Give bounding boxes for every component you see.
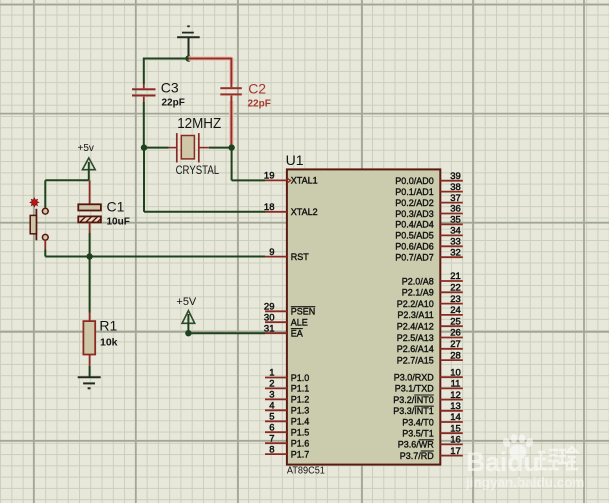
- svg-text:35: 35: [450, 215, 461, 226]
- svg-text:P3.1/TXD: P3.1/TXD: [395, 384, 435, 394]
- pin 10 P3.0/RXD stub: [394, 367, 463, 382]
- pin 29 PSEN stub: [264, 302, 315, 317]
- svg-text:8: 8: [269, 444, 274, 455]
- node: RST rail junction: [86, 253, 92, 259]
- svg-text:12: 12: [450, 390, 461, 401]
- pin 26 P2.5/A13 stub: [397, 328, 463, 343]
- pin 6 P1.5 stub: [265, 422, 309, 437]
- wire: C1 bottom to RST rail: [89, 233, 91, 257]
- capacitor C3: [132, 80, 185, 109]
- svg-text:3: 3: [269, 390, 274, 401]
- pin 8 P1.7 stub: [265, 444, 309, 459]
- watermark (Baidu): [465, 434, 585, 490]
- svg-text:P3.4/T0: P3.4/T0: [402, 417, 434, 427]
- svg-text:ALE: ALE: [291, 318, 308, 328]
- pin 4 P1.3 stub: [265, 401, 309, 416]
- pin 2 P1.1 stub: [265, 379, 309, 394]
- svg-text:1: 1: [269, 368, 274, 379]
- svg-text:24: 24: [450, 305, 461, 316]
- svg-text:P3.6/WR: P3.6/WR: [398, 440, 435, 450]
- svg-text:25: 25: [450, 316, 461, 327]
- pin 19 XTAL1 chevron: [287, 178, 290, 182]
- wire: top junction to C2 (right, highlighted): [189, 58, 232, 85]
- svg-text:5: 5: [269, 412, 274, 423]
- pin 14 P3.4/T0 stub: [402, 412, 463, 427]
- pin 32 P0.7/AD7 stub: [395, 247, 463, 262]
- svg-text:+5v: +5v: [78, 143, 94, 154]
- svg-text:P1.0: P1.0: [291, 373, 310, 383]
- svg-text:4: 4: [269, 401, 274, 412]
- pin 23 P2.2/A10 stub: [397, 294, 463, 309]
- pin 24 P2.3/A11 stub: [397, 305, 462, 320]
- pin 37 P0.2/AD2 stub: [395, 193, 463, 208]
- pin 30 ALE stub: [264, 312, 308, 327]
- svg-text:28: 28: [450, 350, 461, 361]
- ground (below R1): [78, 377, 101, 388]
- svg-text:37: 37: [450, 193, 461, 204]
- wire: C3 to crystal-left node: [143, 102, 145, 148]
- power +5V (EA pin): [176, 296, 197, 333]
- svg-text:P2.3/A11: P2.3/A11: [397, 310, 433, 320]
- svg-text:P2.2/A10: P2.2/A10: [397, 299, 434, 309]
- svg-text:P1.2: P1.2: [291, 395, 310, 405]
- svg-text:P1.4: P1.4: [291, 417, 310, 427]
- svg-text:27: 27: [450, 339, 461, 350]
- crystal 12MHZ: [169, 116, 222, 177]
- svg-text:22: 22: [450, 283, 461, 294]
- svg-text:17: 17: [450, 446, 461, 457]
- pin 11 P3.1/TXD stub: [395, 379, 463, 394]
- svg-text:CRYSTAL: CRYSTAL: [176, 165, 220, 177]
- pin 39 P0.0/AD0 stub: [395, 171, 463, 186]
- wire: crystal right pin wire: [209, 147, 232, 149]
- svg-text:Baidu: Baidu: [466, 447, 540, 477]
- pin 35 P0.4/AD4 stub: [395, 215, 463, 230]
- svg-text:R1: R1: [99, 318, 117, 334]
- svg-text:36: 36: [450, 204, 461, 215]
- svg-text:P1.7: P1.7: [291, 449, 310, 459]
- svg-text:EA: EA: [291, 329, 303, 339]
- svg-text:U1: U1: [286, 152, 304, 168]
- svg-text:C1: C1: [107, 198, 125, 214]
- pin 21 P2.0/A8 stub: [402, 271, 463, 286]
- pin 36 P0.3/AD3 stub: [395, 204, 463, 219]
- wire: crystal left node to XTAL2 pin 18: [144, 148, 265, 212]
- svg-text:31: 31: [264, 323, 275, 334]
- pin 7 P1.6 stub: [265, 433, 309, 448]
- svg-text:P0.1/AD1: P0.1/AD1: [395, 187, 434, 197]
- svg-text:P2.7/A15: P2.7/A15: [397, 355, 434, 365]
- svg-text:XTAL1: XTAL1: [291, 176, 318, 186]
- svg-text:P0.0/AD0: P0.0/AD0: [395, 176, 434, 186]
- origin marker (red) on button: [30, 198, 39, 207]
- svg-text:P3.3/INT1: P3.3/INT1: [393, 406, 434, 416]
- pin 15 P3.5/T1 stub: [402, 423, 463, 438]
- pin 13 P3.3/INT1 stub: [393, 401, 463, 416]
- svg-text:P2.1/A9: P2.1/A9: [402, 288, 434, 298]
- svg-text:PSEN: PSEN: [291, 307, 316, 317]
- pin 9 RST stub: [265, 247, 309, 262]
- svg-text:7: 7: [269, 433, 274, 444]
- svg-text:RST: RST: [291, 252, 310, 262]
- pin 38 P0.1/AD1 stub: [395, 182, 463, 197]
- wire: button bottom to RST rail: [45, 250, 265, 257]
- svg-text:18: 18: [264, 202, 275, 213]
- svg-text:+5V: +5V: [176, 296, 197, 308]
- svg-text:P0.6/AD6: P0.6/AD6: [395, 242, 434, 252]
- ground (top, near C3/C2): [177, 26, 200, 58]
- pin 31 EA stub: [264, 323, 303, 338]
- svg-text:26: 26: [450, 328, 461, 339]
- wire: crystal left pin wire: [144, 147, 169, 149]
- svg-text:P1.1: P1.1: [291, 384, 310, 394]
- svg-text:2: 2: [269, 379, 274, 390]
- svg-text:33: 33: [450, 237, 461, 248]
- svg-text:10: 10: [450, 367, 461, 378]
- svg-text:13: 13: [450, 401, 461, 412]
- svg-text:P0.4/AD4: P0.4/AD4: [395, 220, 434, 230]
- svg-text:10k: 10k: [100, 336, 118, 348]
- svg-text:P1.3: P1.3: [291, 406, 310, 416]
- svg-text:6: 6: [269, 422, 274, 433]
- svg-text:22pF: 22pF: [248, 99, 271, 110]
- svg-text:12MHZ: 12MHZ: [177, 116, 221, 132]
- svg-text:21: 21: [450, 271, 461, 282]
- wire: C2 to crystal-right node (highlighted): [229, 101, 234, 148]
- node: crystal left junction: [141, 144, 147, 150]
- svg-text:jingyan.baidu.com: jingyan.baidu.com: [465, 475, 585, 490]
- wire: +5v rail to button / C1 top: [45, 180, 89, 207]
- svg-text:P0.2/AD2: P0.2/AD2: [395, 198, 434, 208]
- pin 1 P1.0 stub: [265, 368, 309, 383]
- pin 28 P2.7/A15 stub: [397, 350, 463, 365]
- svg-text:29: 29: [264, 302, 275, 313]
- pin 19 XTAL1 stub: [264, 171, 318, 186]
- op-amp U1 body (AT89C51 microcontroller): [286, 152, 441, 477]
- svg-text:38: 38: [450, 182, 461, 193]
- pin 27 P2.6/A14 stub: [397, 339, 463, 354]
- svg-text:P0.5/AD5: P0.5/AD5: [395, 231, 434, 241]
- svg-text:P3.7/RD: P3.7/RD: [400, 451, 435, 461]
- pin 5 P1.4 stub: [265, 412, 309, 427]
- pin 25 P2.4/A12 stub: [397, 316, 463, 331]
- svg-text:P2.0/A8: P2.0/A8: [402, 276, 434, 286]
- svg-text:22pF: 22pF: [162, 98, 185, 109]
- svg-text:C2: C2: [248, 80, 266, 96]
- svg-text:P3.5/T1: P3.5/T1: [402, 429, 434, 439]
- node: EA wire junction: [185, 330, 191, 336]
- svg-text:23: 23: [450, 294, 461, 305]
- pin 33 P0.6/AD6 stub: [395, 237, 463, 252]
- push button: [30, 208, 48, 249]
- power +5v (reset circuit): [78, 143, 96, 180]
- pin 3 P1.2 stub: [265, 390, 309, 405]
- wire: +5V to EA pin 31: [188, 332, 265, 334]
- svg-text:P0.3/AD3: P0.3/AD3: [395, 209, 434, 219]
- svg-text:P1.6: P1.6: [291, 439, 310, 449]
- wire: R1 to ground: [89, 366, 91, 378]
- svg-text:19: 19: [264, 171, 275, 182]
- pin 12 P3.2/INT0 stub: [393, 390, 463, 405]
- svg-text:11: 11: [451, 379, 461, 390]
- pin 18 XTAL2 stub: [264, 202, 318, 217]
- svg-text:C3: C3: [161, 80, 179, 96]
- svg-text:P2.4/A12: P2.4/A12: [397, 322, 434, 332]
- svg-text:P3.2/INT0: P3.2/INT0: [393, 395, 434, 405]
- svg-text:34: 34: [450, 226, 461, 237]
- node: XTAL cap junction (top): [185, 55, 191, 61]
- svg-text:P2.5/A13: P2.5/A13: [397, 333, 434, 343]
- node: crystal right junction: [228, 144, 234, 150]
- pin 16 P3.6/WR stub: [398, 435, 463, 450]
- svg-text:39: 39: [450, 171, 461, 182]
- svg-text:16: 16: [450, 435, 461, 446]
- capacitor C2 (highlighted red): [220, 80, 271, 109]
- resistor R1: [83, 313, 117, 366]
- svg-text:10uF: 10uF: [107, 217, 130, 228]
- capacitor C1 (electrolytic): [78, 180, 130, 233]
- svg-text:15: 15: [450, 423, 461, 434]
- pin 17 P3.7/RD stub: [400, 446, 463, 461]
- pin 34 P0.5/AD5 stub: [395, 226, 463, 241]
- wire: crystal right node to XTAL1 pin 19: [232, 148, 265, 181]
- svg-text:P3.0/RXD: P3.0/RXD: [394, 373, 435, 383]
- svg-text:9: 9: [269, 247, 274, 258]
- svg-text:14: 14: [450, 412, 461, 423]
- svg-text:P0.7/AD7: P0.7/AD7: [395, 253, 434, 263]
- svg-text:P1.5: P1.5: [291, 428, 310, 438]
- svg-text:32: 32: [450, 247, 461, 258]
- wire: rail junction down to R1: [89, 257, 91, 313]
- svg-text:P2.6/A14: P2.6/A14: [397, 344, 434, 354]
- svg-text:AT89C51: AT89C51: [287, 466, 325, 477]
- pin 22 P2.1/A9 stub: [402, 283, 463, 298]
- wire: top junction to C3 (left): [144, 58, 189, 85]
- svg-text:XTAL2: XTAL2: [291, 207, 318, 217]
- svg-text:30: 30: [264, 312, 275, 323]
